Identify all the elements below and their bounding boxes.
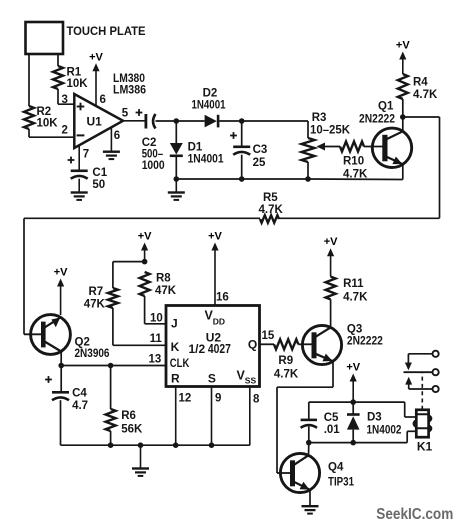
svg-text:1/2: 1/2 <box>189 342 206 356</box>
svg-text:5: 5 <box>122 108 129 120</box>
resistor R9 <box>274 339 298 349</box>
wire pin 8 <box>249 387 251 446</box>
svg-text:R9: R9 <box>278 355 293 367</box>
wire pin 9 <box>211 387 213 446</box>
capacitor C1 <box>71 170 88 179</box>
transistor Q4 <box>280 453 319 492</box>
svg-text:25: 25 <box>253 157 266 169</box>
svg-text:CLK: CLK <box>170 356 190 370</box>
svg-text:16: 16 <box>216 292 229 304</box>
capacitor C3 <box>233 146 250 155</box>
svg-text:4.7K: 4.7K <box>343 291 368 303</box>
svg-text:6: 6 <box>100 94 106 106</box>
diode D1 <box>170 143 183 157</box>
label R5 4.7K <box>259 192 284 216</box>
wire ground bus D1 to R3 <box>176 178 308 180</box>
wire D2 to node C3 <box>219 120 241 122</box>
label Q2 2N3906 <box>75 337 110 361</box>
svg-text:S: S <box>208 371 216 385</box>
svg-text:TIP31: TIP31 <box>328 476 355 488</box>
svg-text:8: 8 <box>253 393 260 405</box>
label C5 .01 <box>324 412 341 436</box>
wire pin 12 <box>175 387 177 446</box>
wire R7 to K pin <box>113 308 166 345</box>
resistor R2 <box>24 106 34 129</box>
svg-text:C4: C4 <box>72 387 87 399</box>
svg-text:+V: +V <box>54 267 68 279</box>
label Q1 2N2222 <box>359 101 395 126</box>
pot wiper arrow <box>317 143 341 151</box>
svg-text:13: 13 <box>149 354 162 366</box>
wire node to D2 <box>176 120 204 122</box>
+V supply relay <box>346 362 360 403</box>
svg-text:10–25K: 10–25K <box>310 125 351 137</box>
label R1 10K <box>67 67 89 91</box>
pin 13 label <box>149 354 162 366</box>
node R3 bottom <box>305 176 311 182</box>
pin 15 label <box>262 330 275 342</box>
svg-text:DD: DD <box>213 316 225 326</box>
wire R5 bus left <box>24 218 260 334</box>
svg-text:R11: R11 <box>343 278 364 290</box>
svg-text:C2: C2 <box>142 137 157 149</box>
node D3 top <box>350 399 356 405</box>
resistor R4 <box>398 74 408 99</box>
label R6 56K <box>121 410 143 435</box>
svg-text:9: 9 <box>215 392 221 404</box>
pin 9 label <box>215 392 221 404</box>
node R6/R7 junction <box>108 363 114 369</box>
label R9 4.7K <box>274 355 299 380</box>
touch plate <box>26 22 64 54</box>
svg-text:2N2222: 2N2222 <box>347 336 383 348</box>
svg-text:6: 6 <box>114 130 120 142</box>
wire D1 to bus <box>175 157 177 179</box>
wire C4 to bottom bus <box>60 400 62 445</box>
svg-text:500–: 500– <box>142 148 164 160</box>
pin 12 label <box>179 392 192 404</box>
svg-text:4.7K: 4.7K <box>413 89 438 101</box>
diode D2 <box>205 115 220 128</box>
wire base Q2 <box>24 333 41 335</box>
wire node to D1 <box>175 121 177 143</box>
+V supply Q2 <box>54 267 68 316</box>
pin 3 label <box>62 94 68 106</box>
svg-text:12: 12 <box>179 392 192 404</box>
node pin 9 <box>209 442 215 448</box>
+V supply op-amp <box>89 52 103 107</box>
wire touch plate left to R2 <box>28 54 30 106</box>
transistor Q1 <box>372 128 411 167</box>
svg-text:+V: +V <box>208 231 222 243</box>
svg-text:2N3906: 2N3906 <box>75 348 110 360</box>
pin 7 label <box>83 149 89 161</box>
contact common wire <box>404 371 433 373</box>
node pin 12 <box>173 442 179 448</box>
contact terminal mid <box>433 369 439 375</box>
wire Q1 collector <box>402 117 404 131</box>
svg-text:K1: K1 <box>417 440 433 454</box>
capacitor C2 <box>145 114 156 129</box>
wire op-amp to ground <box>110 128 112 151</box>
svg-text:D3: D3 <box>367 412 382 424</box>
svg-text:C1: C1 <box>92 167 107 179</box>
svg-text:2N2222: 2N2222 <box>359 114 395 126</box>
relay K1 inner lines <box>417 414 428 428</box>
svg-text:R1: R1 <box>67 67 82 79</box>
label D2 1N4001 <box>192 88 226 112</box>
svg-text:TOUCH PLATE: TOUCH PLATE <box>67 26 146 38</box>
+V supply R11 <box>324 236 338 277</box>
svg-text:4.7: 4.7 <box>72 400 88 412</box>
svg-text:10K: 10K <box>37 118 59 130</box>
U2 pin labels <box>170 316 257 385</box>
wire bus to C5 <box>308 402 310 420</box>
wire node to C4 <box>60 366 62 392</box>
U2 VSS label <box>237 369 257 386</box>
wire R6 to bottom bus <box>110 431 112 445</box>
wire C5 to bottom <box>308 427 310 443</box>
wire R9 to Q3 base <box>298 343 311 345</box>
svg-text:D1: D1 <box>188 142 203 154</box>
wire Q4 collector <box>308 443 310 456</box>
flip-flop U2 box <box>166 306 260 387</box>
plus sign C4 <box>45 376 52 383</box>
wire R1 to pin3 <box>58 89 75 104</box>
svg-text:R10: R10 <box>343 156 364 168</box>
node D1 bottom <box>174 176 180 182</box>
svg-text:D2: D2 <box>203 88 218 100</box>
plus sign C3 <box>230 132 237 139</box>
node R8 top <box>142 259 148 265</box>
node D2/C3 <box>239 118 245 124</box>
svg-text:R: R <box>171 372 180 386</box>
label Q3 2N2222 <box>347 324 383 348</box>
wire C1 to ground <box>78 179 80 192</box>
svg-text:1000: 1000 <box>142 160 165 172</box>
wire bottom bus <box>61 444 250 446</box>
svg-text:11: 11 <box>150 333 163 345</box>
svg-text:Q4: Q4 <box>328 461 344 473</box>
svg-text:+V: +V <box>346 362 360 374</box>
label R2 10K <box>37 106 59 130</box>
svg-text:R2: R2 <box>37 106 52 118</box>
svg-text:C5: C5 <box>324 412 339 424</box>
U2 VDD label <box>205 309 226 327</box>
watermark SeekIC.com <box>376 506 453 523</box>
svg-text:56K: 56K <box>121 423 143 435</box>
diode D3 <box>347 413 360 429</box>
svg-text:+V: +V <box>324 236 338 248</box>
svg-text:Q3: Q3 <box>347 324 362 336</box>
wire R10 to Q1 base <box>364 146 383 148</box>
svg-text:LM386: LM386 <box>113 85 146 97</box>
wire R8 to J pin <box>145 296 166 324</box>
ground D1 <box>168 191 185 201</box>
wire ground stub <box>140 445 142 467</box>
ground bottom bus <box>132 467 149 477</box>
wire touch plate right to R1 <box>57 54 59 66</box>
label R8 47K <box>155 273 177 297</box>
svg-text:.01: .01 <box>324 424 341 436</box>
transistor Q2 <box>31 315 71 355</box>
node R6 bottom <box>108 442 114 448</box>
svg-text:1N4002: 1N4002 <box>367 425 402 437</box>
svg-text:4.7K: 4.7K <box>259 204 284 216</box>
svg-text:K: K <box>171 340 180 354</box>
node C5 bottom <box>306 440 312 446</box>
node ground stub <box>138 442 144 448</box>
pin 10 label <box>150 313 163 325</box>
label TOUCH PLATE <box>67 26 146 38</box>
label LM380 LM386 <box>113 73 146 97</box>
contact terminal bottom <box>433 386 439 392</box>
svg-text:R6: R6 <box>121 410 136 422</box>
node Q2 collector <box>58 363 64 369</box>
node Q1 collector <box>400 114 406 120</box>
svg-text:R7: R7 <box>89 286 104 298</box>
label R4 4.7K <box>413 77 438 101</box>
svg-text:R4: R4 <box>413 77 428 89</box>
wire node to C3 <box>241 121 243 146</box>
resistor R7 <box>108 288 118 308</box>
+V supply pin16 <box>208 231 222 306</box>
wire Q1 emitter <box>308 164 403 179</box>
+V supply R4 <box>396 40 410 75</box>
wire op-amp output to C2 <box>123 120 145 122</box>
wire R3 to bus <box>307 162 309 179</box>
capacitor C5 <box>301 419 317 428</box>
svg-text:R3: R3 <box>312 112 327 124</box>
wire relay top bus <box>309 402 417 417</box>
pin 6 label bottom <box>114 130 120 142</box>
+V supply R7 R8 <box>138 231 152 262</box>
svg-text:R8: R8 <box>156 273 171 285</box>
svg-text:U1: U1 <box>87 115 103 129</box>
label C3 25 <box>253 144 268 169</box>
resistor R5 <box>260 215 279 223</box>
ground Q4 <box>302 505 319 515</box>
relay dashed actuator <box>421 373 423 410</box>
wire node to D3 <box>352 402 354 414</box>
transistor Q3 <box>302 325 341 364</box>
svg-text:1N4001: 1N4001 <box>192 99 226 111</box>
capacitor C4 <box>52 391 69 400</box>
resistor R8 <box>140 272 150 296</box>
svg-text:+V: +V <box>89 52 103 64</box>
node C3 bottom <box>239 176 245 182</box>
svg-text:Q: Q <box>248 337 257 351</box>
wire C3 to bus <box>241 155 243 179</box>
pin 8 label <box>253 393 260 405</box>
wire junction to R6 <box>110 366 112 410</box>
svg-text:C3: C3 <box>253 144 268 156</box>
svg-text:7: 7 <box>83 149 89 161</box>
label C2 500-1000 <box>142 137 165 172</box>
U2 name label <box>189 330 231 356</box>
svg-text:R5: R5 <box>263 192 278 204</box>
svg-text:+V: +V <box>396 40 410 52</box>
label C1 50 <box>92 167 107 191</box>
plus sign C1 <box>68 157 75 164</box>
pin 6 label top <box>100 94 106 106</box>
wire D3 to bottom bus <box>352 430 354 443</box>
contact NC wire <box>405 354 433 371</box>
wire pin7 to C1 <box>78 146 80 170</box>
wire R4 to collector node <box>402 99 404 117</box>
wire R5 bus right <box>279 217 440 219</box>
pin 2 label <box>62 125 68 137</box>
contact terminal top <box>433 351 439 357</box>
svg-text:47K: 47K <box>155 285 177 297</box>
svg-text:J: J <box>171 316 178 330</box>
wire R2 to pin2 <box>29 129 75 137</box>
resistor R10 <box>340 142 364 152</box>
label R10 4.7K <box>343 156 368 181</box>
svg-text:15: 15 <box>262 330 275 342</box>
pin 5 label <box>122 108 129 120</box>
svg-text:SeekIC.com: SeekIC.com <box>376 506 453 523</box>
wire Q3 emitter to Q4 base <box>277 361 333 473</box>
svg-text:50: 50 <box>92 179 105 191</box>
label D1 1N4001 <box>188 142 225 166</box>
label D3 1N4002 <box>367 412 402 437</box>
svg-text:2: 2 <box>62 125 68 137</box>
svg-text:1N4001: 1N4001 <box>188 153 225 165</box>
svg-text:LM380: LM380 <box>113 73 145 85</box>
op-amp U1 <box>74 94 123 148</box>
label R7 47K <box>84 286 106 311</box>
wire Q4 emitter to ground <box>309 490 311 506</box>
wire relay bottom bus <box>309 431 417 442</box>
ground op-amp <box>103 151 120 161</box>
label R3 10-25K <box>310 112 351 137</box>
wire C2 to node <box>156 120 177 122</box>
node D3 bottom <box>350 440 356 446</box>
wire collector to right edge <box>403 117 440 218</box>
label R11 4.7K <box>343 278 368 303</box>
relay K1 coil <box>414 410 431 437</box>
svg-text:3: 3 <box>62 94 68 106</box>
svg-text:Q1: Q1 <box>378 101 394 113</box>
wire Q output <box>260 343 275 345</box>
pin 11 label <box>150 333 163 345</box>
wire Q3 collector to R11 <box>330 299 332 327</box>
resistor R3 pot <box>302 138 315 162</box>
label C4 4.7 <box>72 387 88 412</box>
svg-text:10: 10 <box>150 313 163 325</box>
plus sign C2 <box>136 109 143 116</box>
resistor R6 <box>106 409 116 431</box>
ground C1 <box>71 191 88 201</box>
resistor R1 <box>53 66 63 89</box>
contact NO wire <box>405 377 432 389</box>
svg-text:Q2: Q2 <box>75 337 90 349</box>
svg-text:+V: +V <box>138 231 152 243</box>
label Q4 TIP31 <box>328 461 355 488</box>
wire node to R3 <box>242 121 308 138</box>
svg-text:4027: 4027 <box>208 342 231 356</box>
pin 16 label <box>216 292 229 304</box>
wire to R7 top <box>113 262 145 288</box>
svg-text:SS: SS <box>245 375 257 385</box>
label K1 <box>417 440 433 454</box>
svg-text:10K: 10K <box>67 78 89 90</box>
wire Q2 collector <box>60 352 62 366</box>
wire D1 ground stub <box>175 179 177 192</box>
resistor R11 <box>326 277 336 300</box>
wire Q2 collector bus <box>61 365 166 367</box>
node C2/D1/D2 <box>174 118 180 124</box>
svg-text:4.7K: 4.7K <box>274 368 299 380</box>
svg-text:47K: 47K <box>84 299 106 311</box>
